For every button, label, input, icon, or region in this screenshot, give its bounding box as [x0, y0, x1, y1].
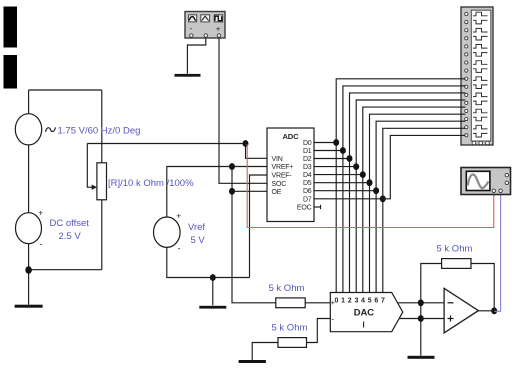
svg-text:+: +: [176, 211, 181, 221]
svg-text:VREF+: VREF+: [272, 164, 294, 171]
ground R3: [239, 360, 266, 363]
wire op-amp output: [478, 310, 494, 312]
wire stubs entering analyzer: [460, 79, 465, 129]
svg-text:1.75 V/60 Hz/0 Deg: 1.75 V/60 Hz/0 Deg: [58, 126, 141, 137]
ground op-amp plus: [408, 356, 435, 359]
oscilloscope XSC1: [461, 168, 511, 195]
wire D0: [314, 142, 336, 144]
svg-text:5: 5: [368, 297, 372, 304]
ground left block: [15, 305, 43, 308]
wire pot wiper to VIN rail: [87, 144, 92, 188]
resistor R3 5k: [278, 338, 307, 348]
svg-text:D3: D3: [303, 164, 312, 171]
wire VIN entry to ADC: [246, 144, 268, 159]
svg-text:D1: D1: [303, 148, 312, 155]
wire VIN rail: [87, 143, 245, 145]
svg-text:VREF-: VREF-: [272, 173, 293, 180]
svg-text:VIN: VIN: [272, 156, 283, 163]
wire DC source bottom to node: [28, 243, 30, 270]
wire between sine and DC source: [28, 145, 30, 214]
wire function generator plus to SOC: [219, 37, 267, 183]
artifact bar top-left 1: [4, 7, 18, 48]
svg-text:D2: D2: [303, 156, 312, 163]
wire VREF- riser: [250, 175, 268, 278]
wire Vref bottom to ground node: [167, 247, 250, 277]
junction dots ADC fan: [333, 139, 386, 202]
wire OE rail: [232, 190, 267, 192]
node op-amp plus: [418, 315, 424, 322]
wire function generator common to ground: [187, 37, 205, 74]
svg-text:+: +: [38, 208, 43, 218]
wire D6: [314, 190, 376, 192]
node op-amp output: [491, 307, 497, 314]
svg-text:2.5 V: 2.5 V: [59, 231, 82, 242]
svg-text:+: +: [216, 25, 221, 34]
wire DAC out top to op-amp minus: [398, 302, 445, 304]
wire pot top: [101, 90, 103, 163]
artifact bar top-left 2: [4, 55, 18, 89]
wire D4: [314, 174, 363, 176]
wire bottom rail left block: [29, 269, 102, 271]
wire D5: [314, 182, 370, 184]
svg-text:4: 4: [361, 297, 365, 304]
ground Vref: [199, 306, 226, 309]
svg-text:2: 2: [348, 297, 352, 304]
wire feedback loop: [421, 264, 442, 303]
svg-text:7: 7: [381, 297, 385, 304]
wire D7: [314, 198, 383, 200]
resistor R4 5k feedback: [442, 259, 471, 269]
wire op-amp plus node to ground: [420, 303, 422, 356]
svg-text:Vref: Vref: [188, 222, 205, 233]
svg-text:OE: OE: [272, 189, 282, 196]
svg-text:ADC: ADC: [283, 132, 300, 141]
wire D1: [314, 150, 343, 152]
node VIN: [243, 140, 249, 147]
wire DAC out bottom to op-amp plus: [399, 318, 444, 320]
wire D2: [314, 158, 350, 160]
wire R2 to DAC plus input: [305, 302, 330, 304]
wire D3: [314, 166, 356, 168]
ADC U1: [267, 128, 314, 222]
node VREF+: [229, 163, 235, 170]
svg-text:-: -: [178, 244, 181, 254]
wire clock line from D7 to analyzer C: [383, 135, 466, 198]
svg-text:[R]/10 k Ohm /100%: [R]/10 k Ohm /100%: [108, 178, 194, 189]
wire OE node down to resistor R2 row: [232, 191, 276, 302]
wire EOC stub: [314, 206, 321, 208]
red wire scope channel A: [247, 144, 494, 227]
wire top rail left block: [29, 89, 102, 91]
wire node to ground left: [28, 270, 30, 305]
svg-text:D0: D0: [303, 140, 312, 147]
svg-text:-: -: [40, 239, 43, 249]
blue wire scope channel B: [494, 193, 500, 312]
DC source V2: [16, 213, 42, 244]
wire R3 to DAC minus input: [307, 319, 331, 343]
node Vref ground: [210, 274, 216, 281]
svg-text:5 V: 5 V: [191, 235, 206, 246]
ADC output fan wires: [314, 79, 465, 293]
wire ground node to ground symbol: [212, 278, 214, 306]
function generator XFG1: [185, 12, 225, 39]
wire R3 ground side: [252, 343, 278, 361]
svg-text:D4: D4: [303, 172, 312, 179]
node OE: [229, 188, 235, 195]
svg-text:EOC: EOC: [297, 205, 312, 212]
node op-amp minus: [418, 299, 424, 306]
svg-text:6: 6: [374, 297, 378, 304]
svg-text:5 k Ohm: 5 k Ohm: [437, 244, 473, 255]
wire pot bottom: [101, 200, 103, 270]
svg-text:5 k Ohm: 5 k Ohm: [269, 283, 305, 294]
svg-text:D6: D6: [303, 188, 312, 195]
DAC U2: [330, 293, 403, 332]
svg-text:D7: D7: [303, 196, 312, 203]
wire Vref top to VREF+: [167, 167, 267, 218]
ground fn-gen: [175, 74, 201, 77]
wire VREF+ node down to OE node: [231, 167, 233, 192]
resistor R2 5k: [276, 298, 305, 308]
svg-text:DC offset: DC offset: [50, 218, 90, 229]
svg-text:1: 1: [341, 297, 345, 304]
svg-text:-: -: [190, 23, 193, 33]
Vref source V3: [154, 217, 181, 247]
node left block bottom: [25, 266, 32, 274]
op-amp U3: [444, 288, 478, 333]
svg-text:0: 0: [334, 297, 338, 304]
svg-text:SOC: SOC: [272, 181, 287, 188]
wire sine source top stub: [28, 90, 30, 115]
svg-text:-: -: [331, 314, 334, 324]
svg-text:5 k Ohm: 5 k Ohm: [272, 323, 308, 334]
svg-text:DAC: DAC: [354, 307, 374, 318]
svg-text:D5: D5: [303, 180, 312, 187]
potentiometer R1: [97, 163, 107, 200]
AC source V1: [15, 114, 41, 145]
logic analyzer XLA1: [461, 7, 493, 145]
svg-text:3: 3: [354, 297, 358, 304]
